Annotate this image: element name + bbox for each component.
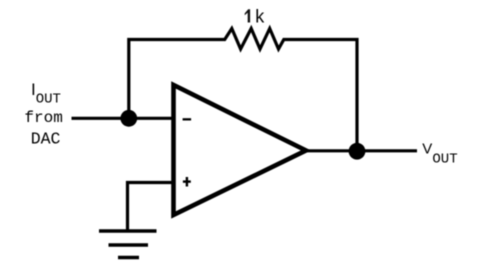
svg-text:k: k	[254, 9, 265, 29]
svg-text:OUT: OUT	[432, 152, 457, 168]
svg-text:from: from	[24, 109, 62, 127]
svg-text:OUT: OUT	[36, 92, 61, 108]
svg-text:DAC: DAC	[31, 130, 61, 149]
svg-text:V: V	[422, 141, 432, 158]
